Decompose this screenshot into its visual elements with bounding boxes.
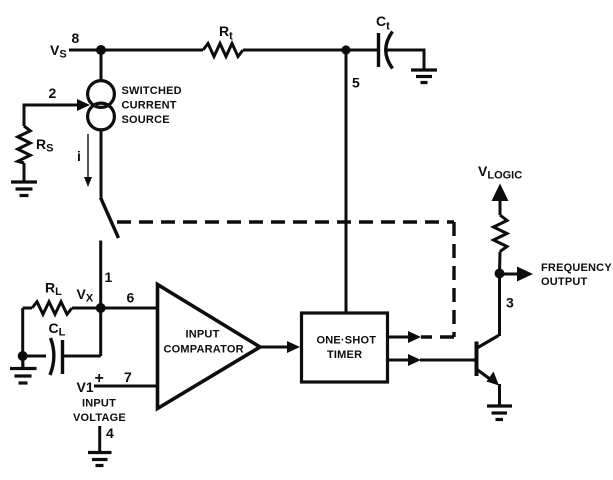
ground pin4 — [88, 453, 112, 466]
svg-text:7: 7 — [124, 369, 132, 385]
wire frequency output arrow — [500, 267, 534, 282]
svg-text:VOLTAGE: VOLTAGE — [73, 412, 126, 424]
wire comparator output to one-shot — [260, 341, 300, 353]
node VX junction — [96, 303, 106, 313]
wire VS node to current source — [100, 50, 103, 81]
ground emitter — [487, 406, 512, 420]
wire pin7 V1 to comparator — [94, 385, 158, 388]
svg-text:OUTPUT: OUTPUT — [541, 276, 588, 288]
svg-text:COMPARATOR: COMPARATOR — [164, 344, 244, 356]
label SWITCHED CURRENT SOURCE — [122, 85, 182, 126]
wire RS to ground — [23, 163, 26, 182]
svg-text:4: 4 — [106, 425, 114, 441]
ground Ct — [411, 70, 437, 83]
capacitor CL — [23, 338, 101, 375]
svg-text:8: 8 — [72, 30, 80, 46]
svg-text:3: 3 — [506, 295, 514, 311]
svg-text:TIMER: TIMER — [327, 349, 362, 361]
svg-text:i: i — [77, 148, 81, 164]
wire pin2 arrow into current source — [24, 99, 90, 126]
resistor RS — [18, 126, 31, 163]
svg-text:6: 6 — [127, 290, 135, 306]
wire one-shot bottom output arrow to transistor base — [389, 354, 476, 366]
dashed control line from switch (horizontal run) — [117, 220, 454, 223]
wire collector to node pin3 — [498, 274, 501, 337]
wire pin6 VX to comparator — [101, 307, 158, 310]
svg-text:ONE·SHOT: ONE·SHOT — [317, 335, 377, 347]
wire pin5 to one-shot timer — [345, 50, 348, 313]
svg-text:V1: V1 — [77, 379, 94, 395]
wire one-shot top output arrow — [389, 331, 422, 343]
op-amp input comparator — [158, 285, 261, 409]
label INPUT COMPARATOR — [164, 329, 244, 356]
wire resistor to pin3 node — [498, 252, 502, 274]
wire current source down to switch — [100, 130, 103, 198]
wire RL left leg down — [21, 308, 24, 356]
capacitor Ct — [379, 32, 393, 69]
ground CL — [10, 356, 37, 383]
wire pin4 stub — [98, 426, 101, 452]
wire Ct to ground — [387, 50, 424, 70]
svg-text:2: 2 — [49, 85, 57, 101]
label INPUT VOLTAGE — [73, 398, 126, 425]
label ONE-SHOT TIMER — [317, 335, 377, 362]
node CL junction — [18, 351, 28, 361]
svg-text:FREQUENCY: FREQUENCY — [541, 262, 612, 274]
wire switch contact to node VX (pin 1) — [99, 241, 102, 309]
current source (switched) — [88, 81, 115, 130]
ground RS — [11, 182, 37, 196]
svg-text:1: 1 — [105, 269, 113, 285]
resistor pull-up to VLOGIC — [494, 215, 508, 252]
resistor RL — [23, 302, 101, 315]
wire VLOGIC arrow up — [492, 184, 509, 216]
dashed control line (to one-shot arrow) — [421, 335, 454, 338]
wire Rt to Ct — [243, 49, 377, 52]
svg-text:SOURCE: SOURCE — [122, 114, 170, 126]
node pin5 junction — [341, 45, 350, 54]
resistor Rt — [203, 44, 243, 57]
dashed control line (vertical run) — [452, 222, 455, 337]
node pin3 junction — [495, 269, 505, 279]
svg-text:INPUT: INPUT — [186, 329, 220, 341]
current arrow i — [84, 134, 92, 187]
switch blade — [101, 198, 119, 239]
wire VS to Rt — [69, 49, 203, 52]
one-shot timer box U1 — [302, 313, 388, 382]
svg-text:CURRENT: CURRENT — [122, 100, 177, 112]
svg-text:INPUT: INPUT — [82, 398, 116, 410]
label FREQUENCY OUTPUT — [541, 262, 612, 288]
transistor Q1 — [477, 336, 500, 407]
wire CL to VX — [99, 308, 102, 356]
svg-text:+: + — [95, 370, 104, 387]
svg-text:SWITCHED: SWITCHED — [122, 85, 182, 97]
svg-text:5: 5 — [352, 75, 360, 91]
node VS junction — [96, 45, 106, 55]
